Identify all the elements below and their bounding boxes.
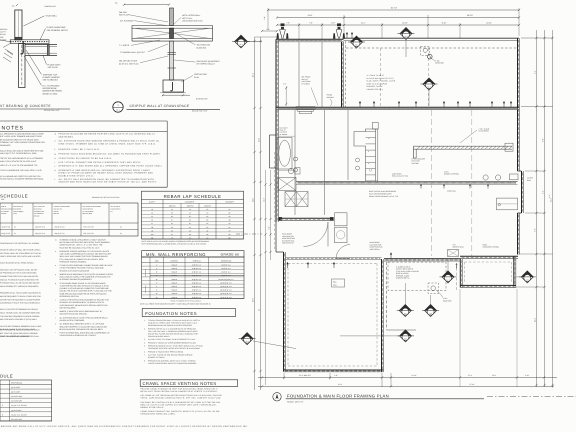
diamond marker 4 mid garage xyxy=(421,78,438,106)
right outer wall lower xyxy=(518,213,520,255)
bathtub xyxy=(277,136,295,170)
detail 2 title: cripple wall at crawlspace xyxy=(127,104,221,112)
svg-text:SOLID BLOCKED AT ALL PANEL EDG: SOLID BLOCKED AT ALL PANEL EDGES. xyxy=(0,262,35,265)
flush beam y147 xyxy=(414,143,514,158)
svg-text:SECTIONS SHALL BE STAGGERED SO: SECTIONS SHALL BE STAGGERED SO THAT ALL xyxy=(0,252,42,255)
svg-text:SEE SCHEDULE: SEE SCHEDULE xyxy=(43,79,59,82)
svg-text:37'-10": 37'-10" xyxy=(469,383,475,386)
bottom-left room walls xyxy=(284,252,384,372)
detail 1 left cut-off labels xyxy=(0,28,12,42)
rebar lap schedule table xyxy=(142,191,244,239)
label: pdtl shoulder xyxy=(412,158,426,165)
svg-text:USE TYPICAL CONNECTION DETAILS: USE TYPICAL CONNECTION DETAILS WHEREVER … xyxy=(59,161,142,164)
svg-text:UNLESS NOTED OTHERWISE.: UNLESS NOTED OTHERWISE. xyxy=(60,319,86,322)
svg-text:REQUIRED AT ALL HOLD-DOWN LOCA: REQUIRED AT ALL HOLD-DOWN LOCATIONS AS xyxy=(0,292,42,295)
svg-text:TOP OF THE ANCHOR BOLTS AT ALL: TOP OF THE ANCHOR BOLTS AT ALL CORNERS xyxy=(0,157,44,160)
bottom-left room inner dashed xyxy=(288,264,377,367)
interior wall y182 (pony wall) xyxy=(296,181,518,184)
svg-text:PROVIDE 4" RADIUS VENT PIPES A: PROVIDE 4" RADIUS VENT PIPES AS REQ'D. xyxy=(148,350,184,353)
svg-text:SIMPSON A35: SIMPSON A35 xyxy=(45,5,56,8)
svg-text:SCHEDULE: SCHEDULE xyxy=(0,194,28,199)
svg-text:CERT BRACED IN SOLID BLOCKING: CERT BRACED IN SOLID BLOCKING OF EACH xyxy=(0,329,40,332)
svg-text:2x6: 2x6 xyxy=(12,5,15,8)
svg-text:POSTS AT SHEAR WALL ENDS SHALL: POSTS AT SHEAR WALL ENDS SHALL BE COMPRE… xyxy=(60,332,110,335)
svg-text:JOINTS EDGE AND TOP PLATES ARE: JOINTS EDGE AND TOP PLATES ARE LOCATED xyxy=(0,255,41,258)
porch steps at main wall xyxy=(296,107,315,114)
svg-text:BARRIER, SLOPE: BARRIER, SLOPE xyxy=(367,85,384,88)
svg-text:1'-10": 1'-10" xyxy=(525,374,530,377)
svg-text:ADVANCE OR EXPANSION BOLT, W/: ADVANCE OR EXPANSION BOLT, W/ RESOLUTION… xyxy=(60,301,105,304)
svg-text:2'-0": 2'-0" xyxy=(266,28,270,31)
diamond marker 1 top-left of garage xyxy=(348,36,365,48)
diamond marker B2 right extension xyxy=(516,271,536,283)
svg-text:SLAB, OVER 4" GRAVEL LAYER: SLAB, OVER 4" GRAVEL LAYER xyxy=(367,80,396,83)
svg-text:THE SPACING REQUIRED BY WOOD S: THE SPACING REQUIRED BY WOOD SCREWS xyxy=(0,315,40,318)
svg-text:METAL DUCT FROM CENTRAL FAN W/: METAL DUCT FROM CENTRAL FAN W/ DAMPER OR… xyxy=(141,390,218,393)
center section top wall y259 xyxy=(384,252,460,268)
svg-text:CRAWL SPACE EXHAUST FAN, FANTA: CRAWL SPACE EXHAUST FAN, FANTASTIC MODEL… xyxy=(141,410,221,413)
detail marker diamond 3/S2.1 xyxy=(232,16,266,48)
main floor wall y108 xyxy=(276,107,519,109)
svg-text:FOUNDATION & MAIN FLOOR FRAMIN: FOUNDATION & MAIN FLOOR FRAMING PLAN xyxy=(287,394,389,399)
svg-text:TBL PANELING: TBL PANELING xyxy=(197,44,211,47)
svg-text:OF ANY FASTENING PROVIDED THAT: OF ANY FASTENING PROVIDED THAT ALL EDGE … xyxy=(60,267,105,270)
svg-text:PROVIDE 4" GRAVEL W/ VAPOR BAR: PROVIDE 4" GRAVEL W/ VAPOR BARRIER BENEA… xyxy=(148,341,197,344)
svg-text:(EXCEPT INT. PADS).: (EXCEPT INT. PADS). xyxy=(148,356,165,359)
small crossed box lower center xyxy=(448,250,459,257)
svg-text:GRADE 60: GRADE 60 xyxy=(221,253,240,257)
right dimension lines of plan xyxy=(516,30,554,387)
anchor flags on garage top wall pairs xyxy=(346,32,353,38)
svg-text:DEHUMIDISTAT WIRED WALL AREA.: DEHUMIDISTAT WIRED WALL AREA. xyxy=(141,413,176,416)
svg-text:PLAN: PLAN xyxy=(194,76,200,79)
shear wall schedule table xyxy=(0,194,138,237)
svg-text:22'-4" BRK PLT: 22'-4" BRK PLT xyxy=(299,374,311,377)
svg-text:DOUBLE KING STUDS U.N.O.: DOUBLE KING STUDS U.N.O. xyxy=(59,174,94,177)
moisture barrier marker lower xyxy=(428,283,451,302)
svg-text:38'-6": 38'-6" xyxy=(252,297,255,302)
svg-text:MASONRY: MASONRY xyxy=(225,201,234,204)
diamond marker 6 center bottom xyxy=(397,283,414,317)
svg-text:WITH 'A' POSTED DETERMINED BY: WITH 'A' POSTED DETERMINED BY DESIGN, xyxy=(0,308,38,311)
label: note install xyxy=(369,190,399,198)
svg-text:ON STACKED FRAMING MEMBERS SHA: ON STACKED FRAMING MEMBERS SHALL HAVE xyxy=(0,325,42,328)
svg-text:REINFORCING MAY BE GRADE 40 UN: REINFORCING MAY BE GRADE 40 UNLESS SPECI… xyxy=(148,324,193,327)
svg-text:CRIPPLE WALL AT CRAWLSPACE: CRIPPLE WALL AT CRAWLSPACE xyxy=(130,104,190,108)
top dimension line tier 3 xyxy=(276,15,520,40)
garage left dashed boundary xyxy=(345,41,347,107)
anchor flags on bottom-left room top wall xyxy=(286,262,335,268)
center bottom dashed wall xyxy=(387,262,457,330)
stair / shear panel with x-bracing xyxy=(278,178,308,207)
svg-text:MIN. WALL REINFORCING: MIN. WALL REINFORCING xyxy=(146,252,206,257)
svg-text:SCALE: 3/4"=1'-0": SCALE: 3/4"=1'-0" xyxy=(192,109,208,112)
detail 1 title: post bearing at concrete xyxy=(0,104,70,112)
svg-text:COMPANY, INC. NON LOADING COND: COMPANY, INC. NON LOADING CONDITIONS PER xyxy=(0,141,45,144)
svg-text:7'-8": 7'-8" xyxy=(309,22,313,25)
svg-text:NAILS SHOWN SHALL BE COMMON WI: NAILS SHOWN SHALL BE COMMON WIRE AND xyxy=(0,312,41,315)
svg-text:6'-0" LINTEL WITH TRIMMER AND: 6'-0" LINTEL WITH TRIMMER AND KING STUDS xyxy=(0,135,43,138)
svg-text:3/4" PLYWOOD: 3/4" PLYWOOD xyxy=(120,19,134,22)
garage slab note text xyxy=(367,74,396,91)
svg-text:MAY BE REQUIRED TO EACH OTHER: MAY BE REQUIRED TO EACH OTHER SIDE FOR xyxy=(0,295,42,298)
svg-text:BEHIND STONE GRILLE.: BEHIND STONE GRILLE. xyxy=(141,406,165,409)
svg-text:26'-10": 26'-10" xyxy=(467,14,473,17)
diamond marker B bottom-left extension xyxy=(440,260,457,283)
svg-text:INDICATES EDGE NAIL SPACING.: INDICATES EDGE NAIL SPACING. xyxy=(60,313,88,316)
svg-text:HORIZONTAL: HORIZONTAL xyxy=(221,259,232,262)
svg-text:CLEARANCE AT EACH THE HOLD-DOW: CLEARANCE AT EACH THE HOLD-DOWN BOLT. xyxy=(0,302,41,305)
bottom dimension lines xyxy=(258,289,557,388)
closet box right room xyxy=(497,198,518,210)
corner posts on wall y219 xyxy=(279,217,334,220)
svg-text:2x6 PT: 2x6 PT xyxy=(0,31,7,34)
svg-text:CONCRETE: CONCRETE xyxy=(145,269,147,277)
svg-text:W/ A.B.: W/ A.B. xyxy=(0,33,6,36)
svg-text:PT AND PLATED SHEATHING CONNEC: PT AND PLATED SHEATHING CONNECTION BE US… xyxy=(60,264,114,267)
svg-text:FLANGE HANGER: FLANGE HANGER xyxy=(43,76,61,79)
svg-text:CLASS *: CLASS * xyxy=(149,201,156,204)
lower-left notes column xyxy=(0,242,42,338)
svg-text:IN SEISMIC DESIGN CATEGORIES D: IN SEISMIC DESIGN CATEGORIES D, E AND F … xyxy=(60,239,107,242)
diamond marker 5 top garage xyxy=(398,28,415,58)
svg-text:11'-2": 11'-2" xyxy=(361,22,366,25)
svg-text:PRESSURE TREATED FRAMING.: PRESSURE TREATED FRAMING. xyxy=(60,260,88,263)
svg-text:8'-8": 8'-8" xyxy=(542,138,545,142)
crawl space venting notes text xyxy=(141,387,223,415)
crawl access dashed rectangle xyxy=(388,262,446,291)
svg-text:41'-6": 41'-6" xyxy=(308,14,313,17)
svg-text:ALL SHEAR WALL SHEATHED WITH 4: ALL SHEAR WALL SHEATHED WITH 4" x 8', OR… xyxy=(60,323,105,326)
bottom-right room bottom wall y256 xyxy=(460,256,518,258)
svg-text:CONNECTORS PER THE PLANS AND N: CONNECTORS PER THE PLANS AND NOTES xyxy=(0,275,39,278)
svg-text:KING STUDS, TRIMMER AND (1) KI: KING STUDS, TRIMMER AND (1) KING AT LINT… xyxy=(59,142,157,145)
svg-text:HOLE MAY BE DIAGONALLY SLOTTED: HOLE MAY BE DIAGONALLY SLOTTED TO 1-3/4"… xyxy=(60,246,101,249)
svg-text:FLOOR SHEATHING: FLOOR SHEATHING xyxy=(47,26,66,29)
svg-text:17'-6": 17'-6" xyxy=(331,22,336,25)
label: hold down location center xyxy=(370,241,384,251)
notes right column text xyxy=(54,133,163,184)
svg-text:TOGETHER MAY BE USED IN PLACE: TOGETHER MAY BE USED IN PLACE OF A SINGL… xyxy=(60,285,110,288)
svg-text:ETC.) SHALL BE IN CONNECTION I: ETC.) SHALL BE IN CONNECTION IN CONTACT … xyxy=(60,258,105,261)
left dimension lines of plan xyxy=(236,37,277,390)
svg-text:CAN CAUSE COMPRESSION IN CONTA: CAN CAUSE COMPRESSION IN CONTACT AND MUS… xyxy=(60,253,113,256)
svg-text:CRAWL SPACE VENTING NOTES: CRAWL SPACE VENTING NOTES xyxy=(143,381,217,386)
svg-text:31'-4": 31'-4" xyxy=(338,383,343,386)
svg-text:SEE PLAN: SEE PLAN xyxy=(48,66,58,69)
svg-text:FAN SHALL BE CONTROLLED BY A D: FAN SHALL BE CONTROLLED BY A DEHUMIDISTA… xyxy=(141,401,221,404)
svg-text:9'-2": 9'-2" xyxy=(534,70,537,74)
copyright note bottom xyxy=(1,425,249,428)
svg-text:DBL OR DBL STUDS: DBL OR DBL STUDS xyxy=(119,60,138,63)
detail 2 bubble 2/S2.1 xyxy=(113,102,123,112)
svg-text:SHALL W. DUCTS TO BE CAPPED UT: SHALL W. DUCTS TO BE CAPPED UTIL/DRYER V… xyxy=(141,403,218,406)
min wall reinforcing note xyxy=(140,299,211,305)
svg-text:FLOOR JOIST: FLOOR JOIST xyxy=(48,63,62,66)
crawl space venting notes box xyxy=(140,380,238,387)
svg-text:OF PROVIDED AT THE FLOOR SHEAT: OF PROVIDED AT THE FLOOR SHEATHING xyxy=(0,272,37,275)
svg-text:90 DAYS MIN 3,000 PSI (TYP): 90 DAYS MIN 3,000 PSI (TYP) xyxy=(367,77,394,80)
svg-text:14'-8": 14'-8" xyxy=(258,137,261,142)
svg-text:'SIMPSON' TOP: 'SIMPSON' TOP xyxy=(43,73,58,76)
svg-text:AT ALL BEAMS AND JOISTS CALLED: AT ALL BEAMS AND JOISTS CALLED OUT ON xyxy=(0,175,41,178)
middle lower notes column xyxy=(55,239,113,338)
moisture barrier marker garage xyxy=(421,47,444,65)
svg-text:MAY BE REQUIRED.: MAY BE REQUIRED. xyxy=(60,306,77,309)
svg-text:SAME SPACING AND DIAMETER AS T: SAME SPACING AND DIAMETER AS THE PLATE N… xyxy=(60,292,108,295)
svg-text:WOOD & CONC.: WOOD & CONC. xyxy=(43,92,59,95)
lower-left notes small tail xyxy=(0,329,40,339)
bath sinks xyxy=(294,157,298,172)
svg-text:BEFORE ANY WORK CALL UTILITY L: BEFORE ANY WORK CALL UTILITY LOCATE SERV… xyxy=(1,425,249,428)
top-left block left wall xyxy=(276,39,279,152)
small dim 2-0 inside top-left block xyxy=(283,82,287,106)
svg-text:OPENINGS 4'-0" AND WIDER AND A: OPENINGS 4'-0" AND WIDER AND ALL OPENING… xyxy=(59,165,163,168)
svg-text:TELEPHONE, ELECTRIC, WATER UTI: TELEPHONE, ELECTRIC, WATER UTILITIES ETC… xyxy=(148,347,201,350)
svg-text:BELOW ADJACENT OPENINGS PER CB: BELOW ADJACENT OPENINGS PER CBC/OSL HBC3… xyxy=(60,328,104,331)
svg-text:SPACING & SHEAR WALLS.: SPACING & SHEAR WALLS. xyxy=(148,335,170,338)
detail 1 leader: floor sheathing label xyxy=(40,26,69,40)
left wall bathroom bump xyxy=(270,135,277,168)
svg-text:NAILS @ 12" O.C. STAGGERED EA.: NAILS @ 12" O.C. STAGGERED EA. SIDE. xyxy=(0,152,37,155)
svg-text:30'-4": 30'-4" xyxy=(252,72,255,77)
right wall bay bump xyxy=(518,171,552,213)
svg-text:USE A 3" x 3" x 1/4" PLATE WAS: USE A 3" x 3" x 1/4" PLATE WASHERS TYP. xyxy=(0,164,38,167)
match line dash-dot xyxy=(487,395,576,397)
plan title xyxy=(286,394,484,404)
label: 2x4 double starting xyxy=(444,171,460,176)
svg-text:9'-10": 9'-10" xyxy=(442,22,447,25)
rebar lap schedule note xyxy=(142,240,210,245)
svg-text:STUD WALL: STUD WALL xyxy=(46,14,58,17)
svg-text:T.J. JOISTS: T.J. JOISTS xyxy=(119,44,130,47)
kitchen sink circles xyxy=(356,158,360,170)
detail 2 right labels xyxy=(174,14,220,82)
svg-text:WELL GALV. AND CONNECTIVE PLAT: WELL GALV. AND CONNECTIVE PLATE FRAMING … xyxy=(60,255,109,258)
svg-text:FOUNDATION NOTES: FOUNDATION NOTES xyxy=(145,311,197,316)
svg-text:WHERE WOOD SHEATHING TOP IS NO: WHERE WOOD SHEATHING TOP IS NOTED ON SHE… xyxy=(60,273,114,276)
notes section title box xyxy=(0,121,167,187)
svg-text:DIRECTLY FROM COLUMNS OR BEAMS: DIRECTLY FROM COLUMNS OR BEAMS SHALL HAV… xyxy=(59,172,154,175)
svg-text:PROVIDE SOLID BLOCKING BELOW A: PROVIDE SOLID BLOCKING BELOW ALL COLUMNS… xyxy=(59,152,162,155)
top edge small annotations xyxy=(12,2,170,9)
detail 1: post bearing at concrete xyxy=(3,10,57,88)
svg-text:PRESSURE TREATED MATERIAL CUT: PRESSURE TREATED MATERIAL CUT OR DRILLED… xyxy=(60,250,111,253)
detail 2: cripple wall at crawlspace xyxy=(132,8,213,93)
left wall mid section xyxy=(276,152,279,222)
svg-text:CONCRETE: CONCRETE xyxy=(185,201,195,204)
svg-text:NOT AT ALL: NOT AT ALL xyxy=(182,17,192,20)
svg-text:OF CRIPPLE WALLS: OF CRIPPLE WALLS xyxy=(197,63,216,66)
right outer wall upper xyxy=(518,38,520,171)
svg-text:COMPACTED FILL: COMPACTED FILL xyxy=(367,88,383,91)
svg-text:BLOCKING: BLOCKING xyxy=(197,46,207,49)
svg-text:20'-10": 20'-10" xyxy=(486,22,492,25)
svg-text:NAILING THE STUDS TOGETHER WIT: NAILING THE STUDS TOGETHER WITH 2' LONG … xyxy=(60,290,113,293)
svg-text:51'-10": 51'-10" xyxy=(391,7,397,10)
toilet xyxy=(288,168,300,175)
svg-text:ALL EXTERIOR WALLS TO BE TYPE: ALL EXTERIOR WALLS TO BE TYPE (SC)/4 SHE… xyxy=(60,316,109,319)
svg-text:2-KING/2 ENDS IN SCHEDULE AS 2: 2-KING/2 ENDS IN SCHEDULE AS 2 THICK/2. xyxy=(60,334,97,337)
svg-text:LOCATIONS SEE PLAN: LOCATIONS SEE PLAN xyxy=(182,20,203,23)
door arcs bottom-left rooms xyxy=(304,222,351,259)
interior verticals left rooms xyxy=(295,110,348,215)
svg-text:WATERPROOF: WATERPROOF xyxy=(43,87,58,90)
svg-text:MUDSILL: MUDSILL xyxy=(0,28,8,31)
garage top wall xyxy=(344,38,520,40)
svg-text:AND ALT. PLYWOOD FLOOR SHEATHI: AND ALT. PLYWOOD FLOOR SHEATHING THE xyxy=(0,278,40,281)
svg-text:@ 16" O.C. SEE PLAN: @ 16" O.C. SEE PLAN xyxy=(119,62,139,65)
diamond marker A left side xyxy=(239,333,296,349)
svg-text:ANCHOR AND POST BASES OR THAT: ANCHOR AND POST BASES OR THAT BE SUBSTIT… xyxy=(59,181,158,184)
svg-text:HEADERS SHALL BE 2-2x6 U.N.O.: HEADERS SHALL BE 2-2x6 U.N.O. xyxy=(59,148,100,151)
garage interior vertical line b xyxy=(428,48,430,107)
svg-text:3'X3'X10" DP.: 3'X3'X10" DP. xyxy=(196,97,208,100)
svg-text:SCALE: 3/4"=1'-0": SCALE: 3/4"=1'-0" xyxy=(44,109,60,112)
top-left block top wall xyxy=(276,39,344,42)
svg-text:(SOLUTION) IN CONTACT THE DIAM: (SOLUTION) IN CONTACT THE DIAMETER OF RE… xyxy=(60,276,112,279)
svg-text:SCALE: 1/4"=1'-0": SCALE: 1/4"=1'-0" xyxy=(287,401,304,404)
svg-text:STRUCTURAL FILL/WOOD TO BE 3x4: STRUCTURAL FILL/WOOD TO BE 3x4 U.N.O. xyxy=(59,157,113,160)
svg-text:BE MANUFACTURED BY THE TRUSS J: BE MANUFACTURED BY THE TRUSS JOIST xyxy=(0,138,40,141)
svg-text:DULE: DULE xyxy=(0,374,13,379)
svg-text:ST BEARING @ CONCRETE: ST BEARING @ CONCRETE xyxy=(0,104,51,108)
svg-text:"4" CONC. SLAB AT: "4" CONC. SLAB AT xyxy=(367,74,385,77)
svg-text:14'-10": 14'-10" xyxy=(411,374,417,377)
top dimension line tier 1 xyxy=(267,7,520,36)
detail 2 footing dimension xyxy=(162,94,208,100)
bottom-right extension walls xyxy=(460,256,516,287)
label: main wall note xyxy=(447,190,456,193)
svg-text:12'-6": 12'-6" xyxy=(492,374,497,377)
svg-text:VERTICAL: VERTICAL xyxy=(193,259,201,262)
small dimension top-left of plan xyxy=(261,28,278,32)
svg-text:VENTIL. GAPS AROUND CONSTRUCTI: VENTIL. GAPS AROUND CONSTRUCTION T.B. DI… xyxy=(141,397,222,400)
svg-text:LOCATE SAWCUT/KERL JOINTS AT F: LOCATE SAWCUT/KERL JOINTS AT FOUNDATION … xyxy=(148,362,197,365)
svg-text:5'-6": 5'-6" xyxy=(534,228,537,232)
detail 1 leader: floor joists label xyxy=(43,55,61,69)
svg-text:SHALL BE STRAPPED TO ADJACENT: SHALL BE STRAPPED TO ADJACENT WALLS ABOV… xyxy=(60,325,108,328)
hold-down anchors on top-left wall xyxy=(277,24,346,39)
svg-text:SPACING IS AT LEAST EQUIVALENT: SPACING IS AT LEAST EQUIVALENT. xyxy=(60,269,91,272)
svg-text:SEE GENERAL NOTES: SEE GENERAL NOTES xyxy=(47,29,69,32)
left rooms bottom wall y219 xyxy=(279,218,333,220)
top-left block interior verticals xyxy=(299,42,344,108)
foundation notes text xyxy=(144,319,204,365)
svg-text:MASONRY: MASONRY xyxy=(145,285,147,292)
svg-text:WALLS SHALL BE NAILED TOGETHER: WALLS SHALL BE NAILED TOGETHER WITH 16d xyxy=(0,149,43,152)
svg-text:AND BEAMS.: AND BEAMS. xyxy=(59,135,75,138)
garage interior vertical line a xyxy=(380,48,382,107)
left wall jog to bottom-left room xyxy=(276,222,284,252)
svg-text:DRAWINGS.: DRAWINGS. xyxy=(0,144,11,147)
svg-text:(DOUBLE 2x STUDS MAY BE CONNEC: (DOUBLE 2x STUDS MAY BE CONNECTED TOGETH… xyxy=(60,287,110,290)
detail 1 leader: stud wall label xyxy=(24,14,58,26)
svg-text:CUSTOM/ADJUST ANCHOR BOLTS SPE: CUSTOM/ADJUST ANCHOR BOLTS SPECIAL INSPE… xyxy=(60,304,109,307)
svg-text:CONTACT THE STRUCTURAL ENGINEE: CONTACT THE STRUCTURAL ENGINEER OF RECOR… xyxy=(60,299,110,302)
crawl access note text xyxy=(396,266,419,280)
svg-text:BOLTS SHALL BE PROVIDED WITH S: BOLTS SHALL BE PROVIDED WITH STEEL PLATE… xyxy=(60,241,111,244)
svg-text:NOTES: NOTES xyxy=(2,126,24,132)
svg-text:NOTE: UPPER WALL: NOTE: UPPER WALL xyxy=(182,14,200,17)
garage top dashed line xyxy=(346,47,517,49)
svg-text:27'-4": 27'-4" xyxy=(468,374,473,377)
label: bearing wall mid xyxy=(332,279,345,287)
svg-text:WHERE 'Q' INDICATES WOOD SHEAT: WHERE 'Q' INDICATES WOOD SHEATHING AND '… xyxy=(60,310,103,313)
detail 2 left labels xyxy=(119,11,168,65)
foundation notes box xyxy=(142,309,235,317)
svg-text:BET JOIST OR EQUAL BELOW EA. B: BET JOIST OR EQUAL BELOW EA. BEARING xyxy=(0,332,38,335)
label: frame spacing xyxy=(327,94,335,107)
svg-text:BARRIER BETWEEN: BARRIER BETWEEN xyxy=(43,90,63,93)
diamond marker 8 lower center xyxy=(340,330,414,342)
label: hold down location left xyxy=(282,233,296,245)
svg-text:CONTINUOUSLY OR VERTICALLY AS: CONTINUOUSLY OR VERTICALLY AS SHOWN. xyxy=(0,242,40,245)
svg-text:ALTERNATE NAILING REQUIREMENTS: ALTERNATE NAILING REQUIREMENTS. xyxy=(60,278,93,281)
pad schedule table xyxy=(0,374,52,421)
min wall reinforcing table xyxy=(142,251,244,299)
svg-text:OPENINGS 4' AND WIDER AND ALL: OPENINGS 4' AND WIDER AND ALL OPENINGS S… xyxy=(59,169,151,172)
svg-text:ALL EXTERIOR DOOR AND WINDOW O: ALL EXTERIOR DOOR AND WINDOW OPENINGS 4 … xyxy=(59,140,160,143)
svg-text:11'-0": 11'-0" xyxy=(252,198,255,203)
svg-text:FOOTING SEE: FOOTING SEE xyxy=(194,73,208,76)
label: left wall dw note xyxy=(280,127,289,136)
notes left column text xyxy=(0,133,45,181)
svg-text:13'-2": 13'-2" xyxy=(534,317,537,322)
svg-text:SEE PLAN: SEE PLAN xyxy=(119,14,129,17)
svg-text:TYPICAL WHEREVER THEY MAY APPL: TYPICAL WHEREVER THEY MAY APPLY U.N.O. xyxy=(0,169,42,172)
fixtures at right bath xyxy=(483,174,518,180)
svg-text:PROVIDE CRAWL FOUNDATION VENT: PROVIDE CRAWL FOUNDATION VENT FOR EVACUA… xyxy=(141,387,219,390)
svg-text:30'-10": 30'-10" xyxy=(402,22,408,25)
label: anchored strong bottom xyxy=(483,244,500,249)
svg-text:AT ADJOINING PANEL EDGES, 3x O: AT ADJOINING PANEL EDGES, 3x OR STAGGER … xyxy=(60,282,107,285)
svg-text:AND AT SILL SPLICES OF PLATES: AND AT SILL SPLICES OF PLATES U.N.O. xyxy=(0,160,37,163)
svg-text:PLANS INSTALL HANGERS SIMPSON: PLANS INSTALL HANGERS SIMPSON OR EQUAL. xyxy=(0,178,45,181)
svg-text:MAY FOR WHICH SPACING AT (HTG): MAY FOR WHICH SPACING AT (HTG) NAILS xyxy=(0,318,38,321)
top dimension line tier 2 xyxy=(276,14,520,18)
detail 1 leader: simpson hanger label xyxy=(26,50,60,82)
label: glb beam xyxy=(460,127,489,143)
svg-text:SHEATHING @ MIDPOINT: SHEATHING @ MIDPOINT xyxy=(197,60,221,63)
svg-text:5'-6": 5'-6" xyxy=(542,190,545,194)
svg-text:TJI RIM/DBL WALL @ 8" O.C.: TJI RIM/DBL WALL @ 8" O.C. xyxy=(120,51,146,54)
svg-text:NAILS/SCREWS ETC (ABOVE AS REQ: NAILS/SCREWS ETC (ABOVE AS REQUIRED) xyxy=(0,285,39,288)
svg-text:UNDER EACH NUT - MIN 3" x 3" x: UNDER EACH NUT - MIN 3" x 3" x 0.229" TH… xyxy=(60,244,104,247)
anchor flags below pony wall y182 xyxy=(420,184,489,188)
svg-text:ON BOTH SIDES OF WALL AND FLOO: ON BOTH SIDES OF WALL AND FLOOR LEVELS xyxy=(0,248,41,251)
svg-text:AND NAILS ON TOP NAILING SHALL: AND NAILS ON TOP NAILING SHALL BE SET xyxy=(0,268,38,271)
kitchen counter xyxy=(354,122,378,181)
svg-text:REFERENCE SECTION.: REFERENCE SECTION. xyxy=(60,295,80,298)
interior verticals right rooms (girder lines) xyxy=(432,110,472,256)
label: cripple wall bottom xyxy=(453,244,465,249)
diamond marker 7 center bottom right xyxy=(422,295,439,317)
svg-text:ALL SIM. TO EXT. PLC CONC. 2x6: ALL SIM. TO EXT. PLC CONC. 2x6 & UP PER/… xyxy=(148,338,196,341)
furnace and water heater boxes xyxy=(335,213,348,243)
svg-text:7'-8": 7'-8" xyxy=(286,22,290,25)
svg-text:G.C. TO PROVIDE: G.C. TO PROVIDE xyxy=(43,84,61,87)
label: dbl front wall xyxy=(302,76,319,106)
svg-text:POINT OR LARGER AS APPROVED: POINT OR LARGER AS APPROVED xyxy=(0,335,30,338)
north bubble xyxy=(273,393,281,401)
detail 1 leader: waterproof barrier label xyxy=(24,56,62,95)
svg-text:PROVIDE BLOCKING BETWEEN RAFTE: PROVIDE BLOCKING BETWEEN RAFTERS AND JOI… xyxy=(59,133,156,136)
svg-text:S2.1: S2.1 xyxy=(116,108,120,111)
svg-text:OTHER FOR THE WASHER TO SHOW P: OTHER FOR THE WASHER TO SHOW PROPER xyxy=(0,298,41,301)
svg-text:REBAR LAP SCHEDULE: REBAR LAP SCHEDULE xyxy=(164,194,222,199)
svg-text:BASE W/ 6 MIL VAPOR: BASE W/ 6 MIL VAPOR xyxy=(367,82,388,85)
